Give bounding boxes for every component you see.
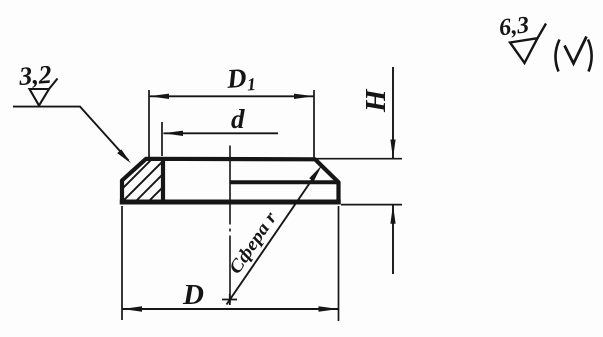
washer body outline (section view) bbox=[122, 159, 339, 205]
roughness symbol 6,3 bbox=[510, 24, 546, 64]
svg-text:H: H bbox=[360, 88, 392, 113]
svg-text:3,2: 3,2 bbox=[17, 60, 52, 91]
dimension D: extension lines bbox=[122, 206, 339, 321]
svg-text:D: D bbox=[182, 279, 204, 311]
arrow leader 3,2 bbox=[117, 149, 131, 163]
arrowheads bbox=[117, 94, 395, 312]
svg-text:d: d bbox=[231, 104, 245, 134]
hole left wall bbox=[161, 158, 165, 203]
dimension H: extension lines bbox=[317, 159, 402, 205]
axis centerline bbox=[229, 146, 231, 304]
arrow D right bbox=[319, 306, 339, 311]
dimension d: extension line bbox=[161, 122, 163, 156]
arrow radius r bbox=[309, 165, 322, 181]
(v) remaining-surfaces mark bbox=[555, 40, 559, 72]
svg-text:D1: D1 bbox=[225, 62, 257, 96]
arrow D left bbox=[122, 306, 142, 311]
dimension d: dimension line bbox=[164, 132, 279, 134]
arrow D1 right bbox=[294, 94, 314, 99]
arrow d left bbox=[163, 131, 183, 136]
radius leader line (Sfera r) bbox=[227, 178, 314, 305]
arrow H bottom bbox=[390, 205, 395, 224]
svg-text:6,3: 6,3 bbox=[498, 12, 531, 41]
dimension H: dimension line segments bbox=[392, 67, 394, 274]
leader line of roughness 3,2 bbox=[13, 107, 129, 161]
dimension D1: dimension line bbox=[149, 95, 314, 97]
dimension D: dimension line bbox=[122, 308, 339, 310]
roughness symbol 3,2 bbox=[30, 79, 58, 106]
arrow H top bbox=[390, 140, 395, 159]
sphere center cross bbox=[222, 294, 237, 305]
dimension D1: extension lines bbox=[149, 90, 314, 158]
sphere-cylinder junction edge (right half) bbox=[230, 180, 339, 184]
washer bottom edge bbox=[120, 200, 341, 205]
hatching of cut section bbox=[94, 136, 227, 204]
arrow D1 left bbox=[149, 94, 169, 99]
